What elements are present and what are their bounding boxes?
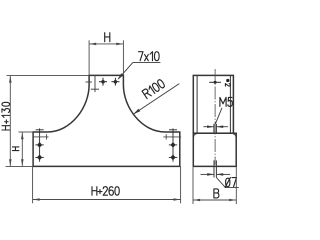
side view: M5 top hole mark [209,81,221,84]
label diameter 7 [225,178,236,188]
dimension B [193,166,236,204]
M5 tapped hole [214,124,217,133]
hole diamond right bottom [170,155,175,161]
front view part outline [33,75,180,166]
side view: centerline [214,69,216,165]
label M5 [220,97,232,106]
node: step cross right [163,134,181,139]
node: inner edge line B top-left [94,75,96,92]
wire: top edge extension line to H+130 dim [7,74,90,76]
dimension H left (base height) [6,132,34,166]
label 7x10 [139,52,160,61]
dimension H+260 bottom [33,166,181,203]
leader 7x10 [117,62,160,80]
label H+260 [92,187,119,196]
diameter 7 hole bottom [214,160,216,177]
label H+130 [2,102,10,130]
side view: inner wall left [196,75,198,133]
slot 7x10 left [99,78,107,86]
base hole column right: centerline [169,128,177,161]
side view: corner hook left [194,134,197,137]
node: step cross left [33,134,48,139]
dimension H top [89,40,123,75]
node: tick on line B [91,88,99,90]
side view: corner hook right [233,134,236,137]
hole diamond left bottom [37,155,42,161]
node: small dot-2 mark [226,79,229,82]
hole diamond right top [170,142,175,148]
label H left [12,147,18,151]
label B [214,189,219,198]
leader R100 [133,84,179,115]
diameter 7 arrows [201,173,231,176]
label R100 [142,79,165,99]
node: tick on left column edge [86,81,92,83]
M5 width arrows [203,125,228,128]
base hole column left: centerline [35,128,43,161]
leader M5 [215,108,222,124]
side view: top section outline [193,75,233,133]
side view: base outline [193,133,236,166]
hole diamond left top [37,142,42,148]
leader diameter 7 [216,178,238,188]
label H top [105,33,110,42]
slot 7x10 right [111,78,119,86]
side view: inner wall right [229,75,231,133]
dimension H+130 left [9,76,12,166]
